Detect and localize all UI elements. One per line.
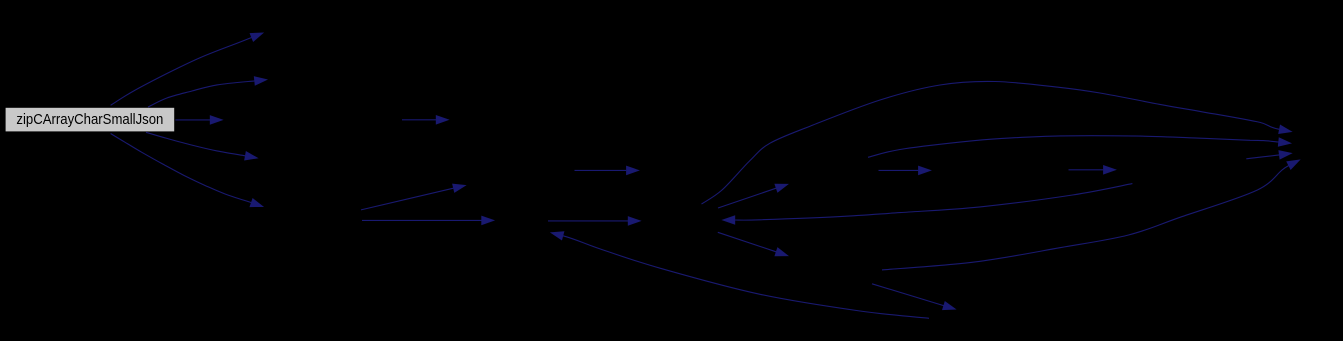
edge E5 root to node5 (111, 134, 252, 203)
edge E8 node5 to node7 (362, 219, 482, 221)
edge E12 hub big top curve to far right node (702, 81, 1280, 204)
svg-text:zipCArrayCharSmallJson: zipCArrayCharSmallJson (16, 111, 163, 128)
edge E21 node B2 to bottom node (872, 284, 944, 306)
edge E22 node B2 sweep up to far right node (882, 166, 1289, 270)
edge E15 right short arrow (1069, 169, 1104, 171)
edge E1 root to node1 (111, 38, 252, 106)
edge E10 node7 to hub (548, 220, 628, 222)
edge E9 node6 to nodeM (575, 169, 627, 171)
edge E16 node R to far right node (1246, 155, 1279, 159)
edge E19 hub to node B2 (718, 232, 776, 252)
edge E17 node R back left to hub (735, 184, 1132, 221)
edge E4 root to node4 (146, 132, 245, 156)
edge E11 bottom node back up-left to node7 (563, 236, 929, 318)
edge E14 mid short arrow (879, 169, 919, 171)
edge E18 hub to node B1 (718, 188, 776, 208)
edge E2 root to node2 (148, 81, 255, 107)
node zipCArrayCharSmallJson (root box) (6, 108, 175, 132)
edge E13 mid node to far right node (868, 136, 1279, 158)
edge E6 node3 to node3b (402, 119, 436, 121)
edge E7 node5 to node6 (361, 188, 453, 210)
edge E3 root to node3 (175, 119, 210, 121)
